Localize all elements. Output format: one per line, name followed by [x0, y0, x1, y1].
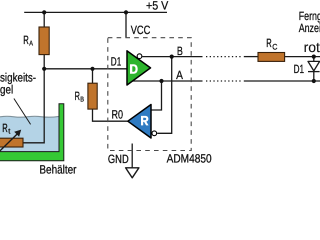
svg-text:D1: D1	[111, 55, 122, 69]
svg-text:ADM4850: ADM4850	[167, 152, 212, 166]
svg-text:VCC: VCC	[131, 23, 151, 37]
svg-text:Behälter: Behälter	[39, 163, 76, 177]
svg-text:R: R	[266, 36, 272, 50]
svg-text:A: A	[29, 40, 33, 47]
svg-text:R: R	[75, 89, 81, 103]
svg-text:pegel: pegel	[0, 82, 13, 96]
svg-text:R: R	[23, 33, 29, 47]
svg-text:B: B	[80, 97, 84, 104]
svg-text:GND: GND	[108, 152, 129, 166]
svg-text:C: C	[272, 43, 277, 52]
svg-text:R0: R0	[112, 107, 124, 121]
svg-text:B: B	[177, 44, 183, 58]
svg-text:R: R	[2, 121, 8, 135]
svg-text:+5 V: +5 V	[146, 0, 168, 13]
svg-text:Anzeige: Anzeige	[299, 21, 320, 35]
svg-text:D1: D1	[294, 62, 305, 76]
svg-text:rot: rot	[304, 39, 320, 55]
svg-text:A: A	[176, 68, 183, 82]
